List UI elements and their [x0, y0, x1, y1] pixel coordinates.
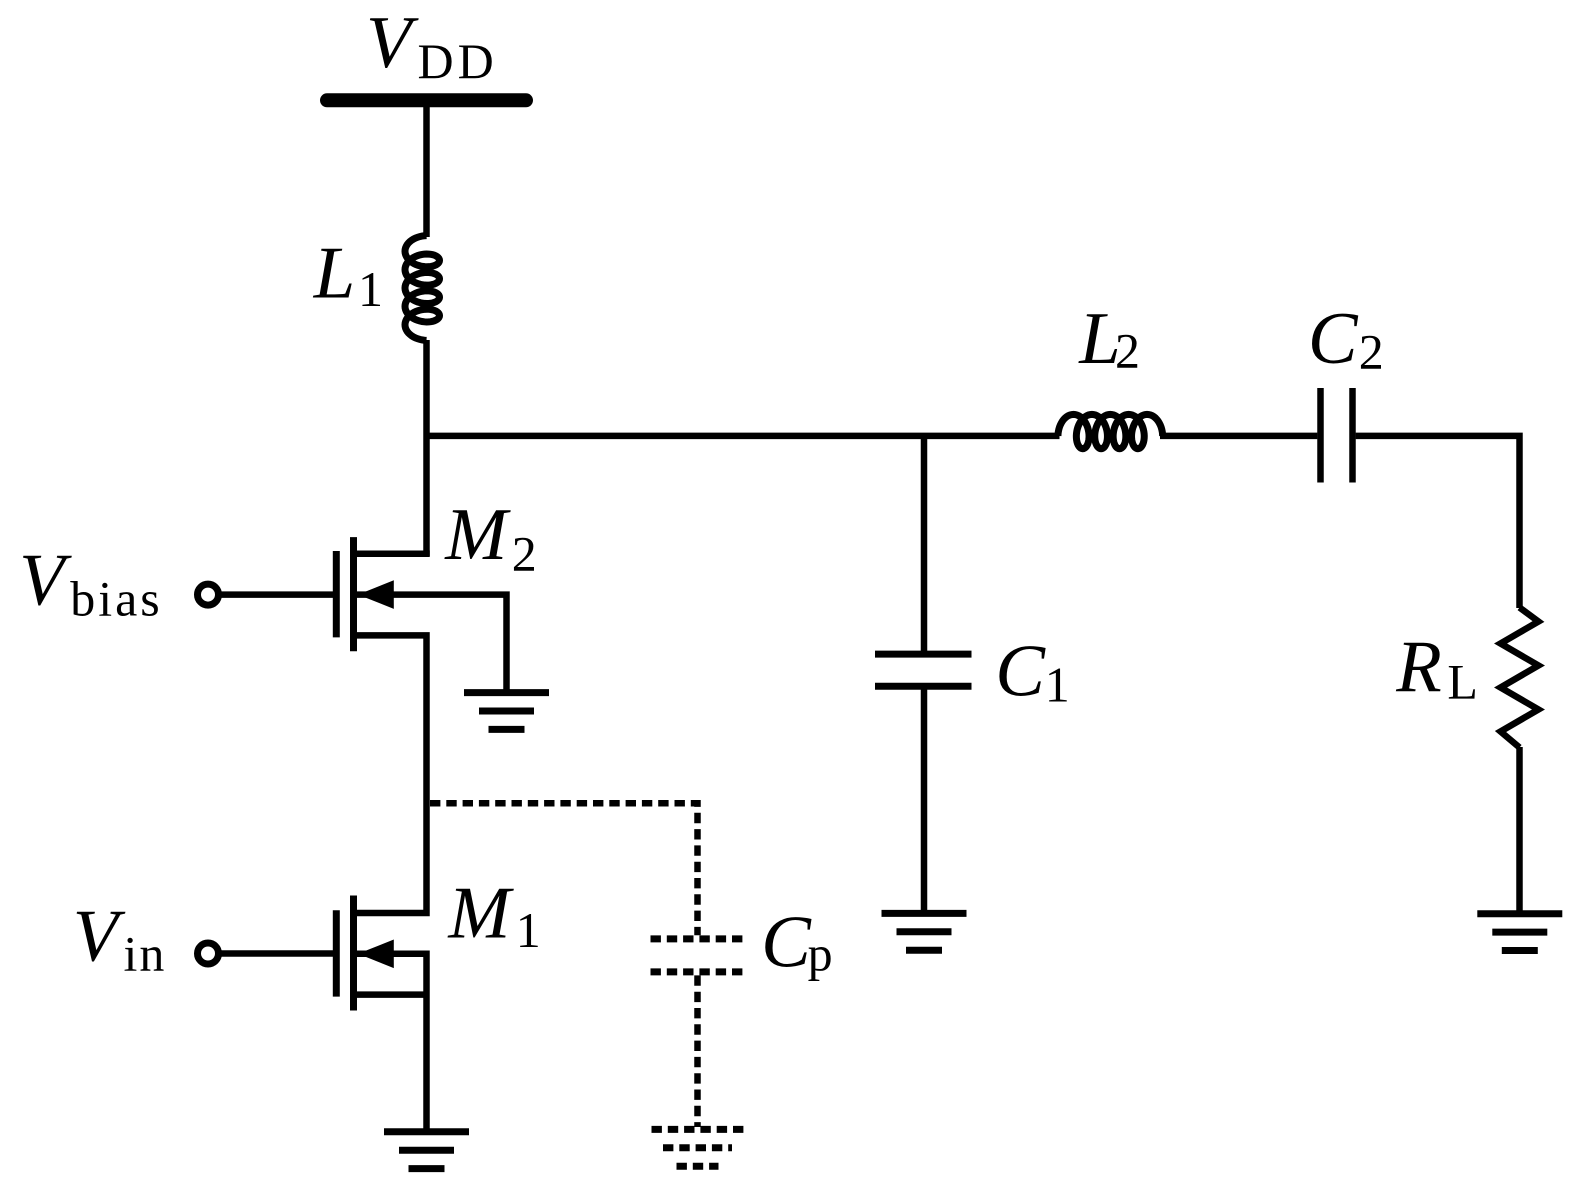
- ground RL: [1477, 910, 1562, 917]
- inductor L2: [1058, 414, 1163, 448]
- M1 bulk wire: [356, 954, 427, 1132]
- wire VDD to L1: [423, 100, 430, 237]
- M2 bulk arrow: [358, 580, 394, 609]
- transistor M1 channel bar: [350, 896, 357, 1011]
- wire M2 drain: [356, 554, 427, 556]
- svg-text:V: V: [366, 2, 419, 84]
- wire C1 to ground: [921, 690, 928, 914]
- inductor L1: [405, 236, 440, 341]
- svg-text:bias: bias: [70, 571, 163, 627]
- svg-text:V: V: [19, 540, 72, 622]
- svg-text:L: L: [1447, 654, 1478, 710]
- dashed wire node X to Cp: [430, 803, 698, 935]
- wire L1 to drain node: [423, 340, 430, 557]
- svg-text:C: C: [995, 630, 1046, 712]
- wire Vin to M1 gate: [221, 950, 333, 957]
- wire L2 to C2: [1160, 433, 1317, 440]
- transistor M2 gate bar: [333, 551, 340, 637]
- svg-text:p: p: [808, 926, 833, 982]
- svg-text:C: C: [1308, 298, 1359, 380]
- svg-text:1: 1: [516, 902, 541, 958]
- ground Cp dashed: [652, 1126, 744, 1133]
- wire M1 source: [356, 991, 427, 998]
- wire drain node bus: [427, 433, 1060, 440]
- svg-text:M: M: [444, 494, 511, 576]
- dashed wire Cp to ground: [694, 975, 701, 1127]
- wire M2 source to M1 drain: [356, 635, 427, 913]
- ground M2 bulk: [464, 689, 549, 696]
- svg-text:V: V: [73, 895, 126, 977]
- capacitor Cp dashed: [651, 935, 743, 942]
- terminal Vin: [198, 943, 219, 964]
- svg-text:C: C: [761, 902, 812, 984]
- terminal Vbias: [198, 584, 219, 605]
- svg-text:DD: DD: [418, 33, 498, 89]
- ground C1: [882, 910, 967, 917]
- svg-text:R: R: [1395, 627, 1442, 709]
- wire RL to ground: [1516, 747, 1523, 914]
- M1 bulk arrow: [358, 940, 394, 969]
- wire Vbias to M2 gate: [221, 591, 333, 598]
- svg-text:in: in: [124, 926, 167, 982]
- transistor M2 channel bar: [350, 537, 357, 651]
- capacitor C1: [875, 651, 972, 658]
- capacitor C2: [1317, 388, 1324, 483]
- svg-text:L: L: [313, 233, 355, 315]
- svg-text:2: 2: [1115, 323, 1140, 379]
- svg-text:M: M: [447, 872, 514, 954]
- M2 bulk wire to ground: [356, 595, 507, 691]
- wire C2 to RL: [1356, 436, 1520, 608]
- power rail VDD: [327, 93, 526, 107]
- svg-text:1: 1: [358, 261, 383, 317]
- resistor RL: [1501, 608, 1539, 748]
- svg-text:1: 1: [1045, 657, 1070, 713]
- svg-text:2: 2: [1359, 324, 1384, 380]
- transistor M1 gate bar: [333, 910, 340, 996]
- wire node to C1: [921, 436, 928, 651]
- svg-text:2: 2: [512, 526, 537, 582]
- ground M1 source: [384, 1128, 469, 1135]
